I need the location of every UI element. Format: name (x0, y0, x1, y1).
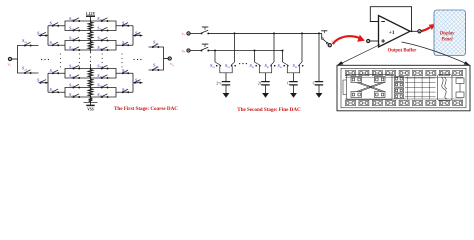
junction dot bus VL at cap3 (282, 50, 284, 52)
capacitor C2 2C (265, 73, 267, 82)
layout middle column cells (395, 77, 404, 99)
switch pair cap3 (278, 62, 304, 73)
switch box B4R (taps 87.5/97) (91, 82, 121, 98)
layout bottom row transistor cells (346, 100, 356, 105)
junction dot bus VH at cap2 (273, 32, 275, 34)
vertical ellipsis columns continuation (60, 53, 61, 54)
layout right margin cells (456, 78, 464, 97)
switch box B3R (taps 68.5/78) (91, 63, 121, 79)
terminal buffer input (367, 39, 370, 42)
output switch with clock bar (321, 33, 323, 37)
junction dot bus VH at cap1 (234, 32, 236, 34)
svg-text:2C: 2C (258, 82, 263, 86)
decoder level-2 branch V2bL (37, 68, 61, 93)
bottom bus VL (209, 50, 283, 52)
svg-text:Display: Display (439, 31, 456, 36)
callout line left (339, 45, 380, 65)
switch trunk lower right (152, 67, 159, 71)
wire VH drop cap2 (273, 33, 275, 62)
svg-text:2NC: 2NC (216, 81, 223, 85)
wire VL drop cap1 (214, 51, 216, 63)
junction dot bus VL at cap2 (254, 50, 256, 52)
display panel block (434, 10, 466, 56)
switch box B1L (taps 21/30.5) (61, 16, 91, 32)
wire VH drop cap1 (234, 33, 236, 62)
junction dot bus VH at cap3 (301, 32, 303, 34)
red arrow buffer to display panel (422, 27, 431, 31)
capacitor C4 termination C (318, 33, 320, 81)
ellipsis left tree (41, 59, 42, 60)
switch S-top input with clock bar (201, 30, 210, 34)
terminal VA coarse output (8, 57, 11, 60)
svg-text:C: C (287, 82, 290, 86)
svg-text:VA: VA (8, 63, 12, 68)
wire string to dots (90, 50, 92, 52)
svg-text:1.12V: 1.12V (86, 12, 96, 16)
ellipsis between cap1 and cap2 (239, 63, 240, 64)
wire dots to string (90, 64, 92, 69)
decoder level-2 branch V2aR (120, 21, 142, 47)
layout center routing wires (405, 77, 436, 100)
right output trunk (149, 47, 164, 70)
wire input bottom (190, 50, 201, 52)
feedback wire (370, 7, 411, 32)
layout left matched pair block with cross-coupling (343, 75, 392, 100)
switch trunk upper left (24, 42, 32, 46)
svg-text:VB: VB (182, 49, 186, 54)
wire VH drop cap4 (318, 32, 320, 34)
layout die photo frame (337, 65, 470, 111)
terminal VA fine input (187, 32, 190, 35)
svg-text:Panel: Panel (441, 38, 453, 43)
decoder level-2 branch V2bR (120, 68, 142, 93)
terminal Vo fine output (328, 44, 331, 47)
svg-text:The Second Stage: Fine DAC: The Second Stage: Fine DAC (237, 107, 301, 113)
op-amp U1 unity-gain buffer (379, 16, 411, 48)
resistor string R4-R7 (bottom) (88, 69, 92, 79)
string tap junction dots (90, 20, 92, 22)
wire buffer output (410, 30, 418, 32)
red arrow DAC output to buffer (333, 36, 360, 44)
svg-text:VA: VA (182, 32, 186, 37)
switch box B2L (taps 40.5/50) (61, 35, 91, 51)
wire VH drop cap3 (301, 33, 303, 62)
switch box B1R (taps 21/30.5) (91, 16, 121, 32)
decoder level-2 branch V2aL (37, 21, 61, 47)
terminal VB fine input (187, 49, 190, 52)
top bus VH (209, 32, 322, 34)
layout top row transistor cells (346, 70, 356, 75)
switch trunk upper right (152, 44, 159, 48)
switch pair cap2 (250, 62, 276, 73)
left output trunk (18, 46, 39, 74)
terminal buffer output (418, 30, 421, 33)
svg-text:C: C (313, 82, 316, 86)
terminal VB coarse output (168, 57, 171, 60)
switch box B4L (taps 87.5/97) (61, 82, 91, 98)
svg-text:+1: +1 (389, 30, 395, 36)
layout serpentine resistor block (438, 75, 453, 101)
junction feedback-output (411, 30, 413, 32)
wire buffer input (370, 40, 379, 42)
capacitor C1 2^N C (225, 73, 227, 82)
wire input top (190, 32, 201, 34)
layout guard rails (345, 76, 463, 78)
ground VSS (84, 102, 98, 104)
ellipsis right tree (133, 59, 134, 60)
junction dot bus VL at cap1 (214, 50, 216, 52)
resistor string R1-R3 (top) (88, 21, 92, 31)
svg-text:The First Stage: Coarse DAC: The First Stage: Coarse DAC (114, 106, 178, 112)
wire VL drop cap2 (254, 51, 256, 63)
switch box B2R (taps 40.5/50) (91, 35, 121, 51)
svg-text:Output Buffer: Output Buffer (388, 49, 417, 54)
callout line right (402, 42, 469, 64)
switch pair cap1 (210, 62, 236, 73)
switch trunk lower left (24, 70, 32, 74)
wire VL drop cap3 (282, 51, 284, 63)
switch S-bot input with clock bar (201, 47, 210, 51)
switch box B3L (taps 68.5/78) (61, 63, 91, 79)
capacitor C3 C (293, 73, 295, 82)
string continuation dots (90, 52, 91, 53)
supply rail bar (86, 15, 95, 17)
svg-text:VSS: VSS (87, 108, 94, 112)
